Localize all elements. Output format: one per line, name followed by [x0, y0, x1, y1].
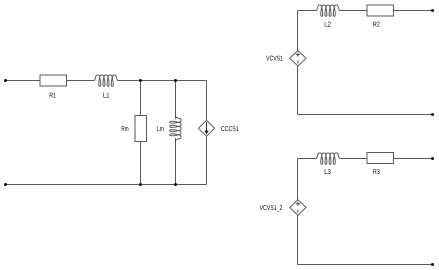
- svg-text:L1: L1: [103, 93, 109, 100]
- svg-text:Rm: Rm: [121, 126, 128, 133]
- node: top-right output terminal top: [431, 9, 434, 12]
- VCVS1 plus mark: [296, 53, 300, 57]
- node: junction Lm top: [174, 79, 177, 82]
- node: bottom-right output terminal top: [431, 157, 434, 160]
- wire: bottom-right circuit top rail left of L3: [298, 158, 317, 160]
- svg-text:CCCS1: CCCS1: [221, 126, 239, 133]
- wire: left circuit top rail left of L1: [6, 80, 95, 82]
- wire: bottom-right circuit top rail right of L3: [340, 158, 433, 160]
- VCVS1_2 minus mark (rotated): [297, 210, 299, 213]
- node: bottom-right output terminal bottom: [431, 263, 434, 266]
- wire: top-right circuit bottom rail: [298, 114, 433, 116]
- node: left circuit input terminal bottom: [4, 183, 7, 186]
- wire: Rm branch vertical: [140, 81, 142, 185]
- wire: left circuit top rail right of L1: [118, 80, 207, 82]
- svg-text:VCVS1: VCVS1: [266, 56, 283, 63]
- wire: CCCS1 branch vertical top: [206, 81, 208, 121]
- node: junction Lm bottom: [174, 183, 177, 186]
- VCVS1 minus mark (rotated): [297, 60, 299, 63]
- resistor R2: [367, 5, 394, 16]
- resistor R1: [40, 75, 67, 86]
- dependent source CCCS1: [198, 120, 214, 136]
- CCCS1 arrow: [205, 122, 209, 134]
- wire: left circuit bottom rail: [6, 184, 207, 186]
- wire: Lm branch vertical top: [175, 81, 177, 120]
- wire: bottom-right circuit bottom rail: [298, 264, 433, 266]
- svg-text:L2: L2: [324, 22, 331, 29]
- svg-text:R3: R3: [373, 169, 380, 176]
- wire: top-right circuit left vertical lower: [297, 66, 299, 114]
- svg-text:L3: L3: [324, 169, 331, 176]
- svg-text:R1: R1: [49, 93, 56, 100]
- inductor Lm: [170, 117, 181, 140]
- VCVS1_2 plus mark: [296, 202, 300, 206]
- wire: top-right circuit left vertical upper: [297, 11, 299, 51]
- wire: Lm branch vertical bottom: [175, 138, 177, 185]
- node: top-right output terminal bottom: [431, 113, 434, 116]
- inductor L3: [317, 153, 340, 164]
- wire: bottom-right circuit left vertical lower: [297, 215, 299, 264]
- wire: bottom-right circuit left vertical upper: [297, 159, 299, 200]
- inductor L2: [317, 5, 340, 16]
- node: junction Rm top: [139, 79, 142, 82]
- inductor L1: [95, 75, 118, 86]
- resistor R3: [367, 153, 394, 164]
- svg-text:Lm: Lm: [157, 126, 164, 133]
- node: junction Rm bottom: [139, 183, 142, 186]
- dependent source VCVS1_2: [290, 200, 306, 216]
- wire: CCCS1 branch vertical bottom: [206, 136, 208, 184]
- dependent source VCVS1: [290, 51, 306, 67]
- node: left circuit input terminal top: [4, 79, 7, 82]
- svg-text:VCVS1_2: VCVS1_2: [260, 205, 283, 212]
- wire: top-right circuit top rail right of L2: [340, 10, 433, 12]
- svg-text:R2: R2: [373, 22, 380, 29]
- resistor Rm: [135, 116, 147, 142]
- wire: top-right circuit top rail left of L2: [298, 10, 317, 12]
